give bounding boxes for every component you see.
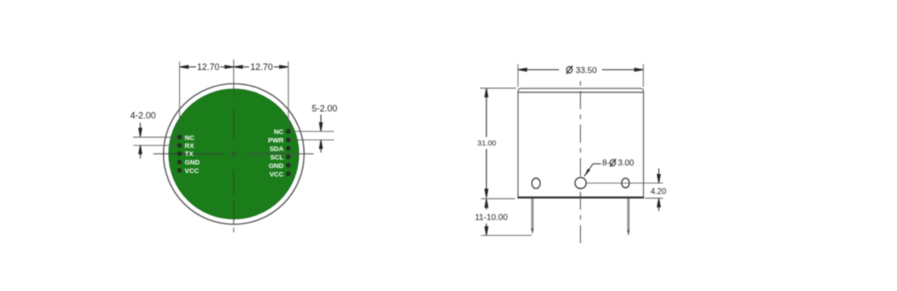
left pin header (5 pins) — [177, 135, 181, 172]
svg-text:NC: NC — [274, 129, 284, 136]
right pin header (6 pins) — [286, 129, 290, 176]
center hole — [575, 177, 586, 188]
svg-text:3.00: 3.00 — [618, 158, 635, 168]
dimension line 12.70 (right half) — [234, 65, 288, 68]
svg-text:5-2.00: 5-2.00 — [312, 103, 338, 113]
svg-text:NC: NC — [185, 135, 195, 142]
pin L1 NC — [177, 135, 181, 139]
pin L4 GND — [177, 160, 181, 164]
extension line at can bottom right — [645, 197, 663, 199]
text 8-D3.00 — [602, 158, 634, 168]
svg-text:VCC: VCC — [269, 171, 283, 178]
pin R1 NC — [286, 129, 290, 133]
extension line left — [517, 64, 519, 87]
svg-text:GND: GND — [269, 163, 284, 170]
svg-text:31.00: 31.00 — [477, 139, 496, 148]
svg-text:12.70: 12.70 — [197, 62, 220, 72]
extension line at can bottom — [481, 198, 515, 200]
extension line top — [480, 87, 516, 89]
5-2.00 extension line (NC row) — [292, 130, 334, 132]
right hole (ellipse) — [622, 178, 630, 188]
pin L3 TX — [177, 152, 181, 156]
hole row extension line to 4.20 dim — [586, 182, 663, 184]
svg-text:SDA: SDA — [269, 146, 283, 153]
dimension 12.70 left: extension line — [179, 62, 181, 135]
green PCB disc — [169, 89, 299, 219]
left leg — [531, 199, 533, 230]
svg-text:4-2.00: 4-2.00 — [130, 111, 156, 121]
pin R4 SCL — [286, 155, 290, 159]
svg-text:GND: GND — [185, 160, 200, 167]
extension line at leg tip — [481, 234, 532, 236]
5-2.00 extension line (PWR row) — [292, 139, 334, 141]
vertical centerline — [233, 60, 235, 233]
svg-text:RX: RX — [185, 143, 195, 150]
4-2.00 arrows — [139, 123, 142, 159]
pin R5 GND — [286, 163, 290, 167]
right leg — [627, 199, 629, 231]
can body — [518, 92, 644, 197]
svg-text:11-10.00: 11-10.00 — [475, 212, 508, 222]
pin L2 RX — [177, 143, 181, 147]
horizontal centerline — [153, 153, 313, 155]
can bottom edge (thick) — [518, 197, 645, 199]
5-2.00 arrows — [319, 115, 322, 153]
svg-text:8-: 8- — [602, 158, 610, 168]
right pin labels — [268, 129, 284, 178]
left pin labels — [185, 135, 200, 175]
pin R6 VCC — [286, 172, 290, 176]
leader 8-D3.00 — [584, 164, 601, 177]
4-2.00 extension line (NC row) — [133, 136, 177, 138]
extension line right — [642, 64, 644, 87]
text D33.50 — [566, 65, 597, 75]
svg-text:TX: TX — [185, 151, 194, 158]
svg-text:33.50: 33.50 — [576, 65, 598, 75]
svg-text:4.20: 4.20 — [651, 187, 667, 196]
left hole (ellipse) — [532, 178, 540, 188]
vertical centerline (side view) — [579, 78, 581, 244]
svg-text:VCC: VCC — [185, 168, 199, 175]
pin R3 SDA — [286, 146, 290, 150]
dimension line 12.70 (left half) — [180, 65, 234, 68]
4-2.00 extension line (RX row) — [133, 144, 177, 146]
dimension 12.70 right: extension line — [287, 62, 289, 130]
outer circle — [164, 84, 305, 225]
svg-text:12.70: 12.70 — [250, 62, 273, 72]
svg-text:SCL: SCL — [270, 154, 283, 161]
pin R2 PWR — [286, 138, 290, 142]
can top lip — [518, 88, 644, 92]
pin L5 VCC — [177, 168, 181, 172]
svg-text:PWR: PWR — [268, 138, 284, 145]
